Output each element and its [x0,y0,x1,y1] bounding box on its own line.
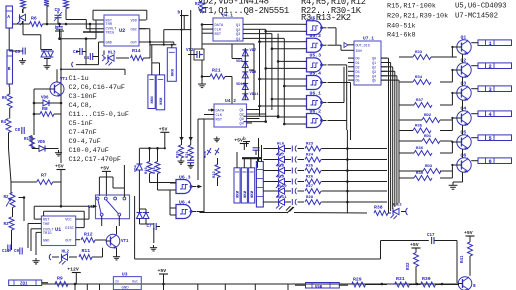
svg-text:8: 8 [473,283,476,289]
svg-text:U5.1: U5.1 [310,16,322,22]
svg-text:R4: R4 [1,121,7,125]
svg-text:C10: C10 [2,250,10,254]
svg-text:+12V: +12V [67,267,79,273]
svg-text:VT1,Q1...Q8-2N5551: VT1,Q1...Q8-2N5551 [198,6,289,16]
svg-text:GND: GND [106,42,112,46]
svg-text:Q2: Q2 [372,66,376,70]
svg-text:U5.2: U5.2 [310,33,322,39]
svg-text:HL10: HL10 [277,185,287,189]
svg-text:C11...C15-0,1uF: C11...C15-0,1uF [69,111,129,119]
svg-text:U6.3: U6.3 [179,174,191,180]
svg-text:R15,R17-100k: R15,R17-100k [387,3,436,11]
svg-text:C7: C7 [147,225,153,229]
svg-text:C5-1nF: C5-1nF [69,120,93,128]
svg-text:R5: R5 [2,97,8,101]
svg-text:5: 5 [489,136,492,142]
svg-text:VDD: VDD [131,20,137,24]
svg-text:HL7: HL7 [277,153,285,157]
svg-text:2: 2 [489,64,492,70]
svg-text:U3: U3 [122,272,128,278]
svg-text:U4.1: U4.1 [222,13,233,19]
svg-text:RST: RST [43,219,50,223]
svg-text:Q2: Q2 [240,114,244,118]
svg-text:C4,C8,: C4,C8, [69,102,93,110]
svg-text:U4.2: U4.2 [225,98,236,104]
svg-text:6: 6 [489,159,492,165]
svg-text:R28: R28 [306,196,314,200]
svg-text:ЖКИ: ЖКИ [171,68,175,76]
svg-text:HL3: HL3 [108,52,116,56]
svg-text:R16: R16 [145,166,149,174]
svg-text:VD4: VD4 [135,164,139,172]
svg-text:R33: R33 [415,51,423,55]
svg-text:R26: R26 [306,175,314,179]
svg-text:C9-4,7uF: C9-4,7uF [69,138,101,146]
svg-text:ЖКИ: ЖКИ [160,97,164,105]
svg-text:B: B [8,66,11,72]
svg-text:ЖКИ: ЖКИ [237,190,241,198]
svg-text:R37: R37 [416,99,424,103]
svg-text:Q3: Q3 [372,71,376,75]
svg-text:RST: RST [216,119,223,123]
svg-text:+5V: +5V [158,268,167,274]
svg-text:R39: R39 [422,276,431,282]
svg-text:Q3: Q3 [240,118,244,122]
svg-text:VD10: VD10 [236,83,246,87]
svg-text:TRIG: TRIG [43,232,52,236]
svg-text:CLK: CLK [216,114,223,118]
svg-text:3: 3 [489,87,492,93]
svg-text:GND: GND [43,239,49,243]
svg-text:U5.4: U5.4 [310,70,322,76]
svg-text:R3,R13-2K2: R3,R13-2K2 [301,13,351,23]
svg-text:INH: INH [356,50,362,54]
svg-text:R40-51k: R40-51k [387,23,416,31]
svg-text:R23: R23 [306,142,314,146]
svg-text:VD5: VD5 [38,141,46,145]
svg-text:R21: R21 [212,68,221,74]
svg-text:+5V: +5V [234,138,243,144]
svg-text:R27: R27 [306,185,314,189]
svg-text:OUT_DIS: OUT_DIS [356,44,370,48]
svg-text:C5: C5 [55,7,61,13]
svg-text:C1-1u: C1-1u [69,75,89,83]
svg-text:U7-MC14502: U7-MC14502 [455,13,498,21]
svg-text:VD8: VD8 [236,60,244,64]
svg-text:Q1: Q1 [461,34,467,40]
svg-text:Q4: Q4 [240,123,244,127]
svg-text:Q5: Q5 [461,129,467,135]
svg-text:R2: R2 [195,3,201,7]
svg-text:VD6: VD6 [41,97,49,101]
svg-text:OUT: OUT [131,42,138,46]
svg-text:R18: R18 [153,166,157,174]
svg-text:C8: C8 [15,129,21,133]
svg-text:Q2: Q2 [461,57,467,63]
svg-text:Q1: Q1 [240,109,244,113]
svg-text:VT1: VT1 [121,240,129,244]
svg-text:ЖКИ: ЖКИ [151,96,155,104]
svg-text:RD2: RD2 [424,114,432,118]
svg-text:R14: R14 [132,48,141,54]
svg-text:R38: R38 [374,205,383,211]
svg-text:VD7: VD7 [250,49,258,53]
svg-text:THR: THR [43,223,50,227]
svg-text:R12: R12 [84,232,93,238]
svg-text:A: A [7,14,10,20]
svg-text:+5V: +5V [159,126,168,132]
svg-text:+5V: +5V [100,165,109,171]
svg-text:RST: RST [215,33,222,37]
svg-text:RD1: RD1 [424,135,432,139]
svg-text:Q3: Q3 [236,33,240,37]
svg-text:R10: R10 [24,138,32,142]
svg-text:R8: R8 [42,106,48,112]
svg-text:b: b [178,10,181,16]
svg-text:Q3: Q3 [461,80,467,86]
svg-text:ZQ1: ZQ1 [20,283,28,287]
svg-text:+5V: +5V [410,242,419,248]
svg-text:Q4: Q4 [461,105,467,111]
svg-text:Q5: Q5 [372,80,376,84]
svg-text:U6.2: U6.2 [310,108,322,114]
svg-text:R7: R7 [41,173,47,179]
svg-text:R35: R35 [415,125,423,129]
svg-text:Out: Out [132,281,138,285]
svg-text:D2: D2 [356,66,360,70]
svg-text:C4: C4 [84,57,90,61]
svg-text:HL11: HL11 [277,196,287,200]
svg-text:C2,C6,C16-47uF: C2,C6,C16-47uF [69,84,125,92]
svg-text:R6: R6 [31,16,37,22]
svg-text:U5.3: U5.3 [310,53,322,59]
svg-text:HL6: HL6 [277,142,285,146]
svg-text:USB: USB [315,285,323,289]
svg-text:VT2: VT2 [186,49,194,53]
svg-text:HL9: HL9 [277,175,285,179]
svg-text:C10-0,47uF: C10-0,47uF [69,147,109,155]
svg-text:R29: R29 [353,277,362,283]
svg-text:R30: R30 [416,172,424,176]
svg-text:R25: R25 [306,164,314,168]
svg-text:D3: D3 [356,71,360,75]
svg-text:U1: U1 [55,227,61,233]
svg-text:R31: R31 [396,276,405,282]
svg-text:R41-6k8: R41-6k8 [387,32,416,40]
svg-text:+5V: +5V [55,164,64,170]
svg-text:GND: GND [122,287,130,290]
svg-text:U2: U2 [119,28,125,34]
svg-text:b: b [55,25,58,31]
svg-text:In: In [115,281,119,285]
svg-text:DATA: DATA [215,24,224,28]
svg-text:Q4: Q4 [236,38,240,42]
svg-text:R3: R3 [4,223,10,227]
svg-text:R22: R22 [213,170,217,178]
svg-text:R34: R34 [415,76,423,80]
svg-text:C3-10nF: C3-10nF [69,93,97,101]
svg-text:HL8: HL8 [277,164,285,168]
svg-text:R21: R21 [186,150,190,158]
svg-text:R32: R32 [407,262,411,270]
svg-text:THR: THR [106,23,113,27]
svg-text:TRIG: TRIG [106,32,115,36]
svg-text:U6.4: U6.4 [179,199,191,205]
svg-text:OSC: OSC [131,28,137,32]
svg-text:VD9: VD9 [250,71,258,75]
svg-text:D5: D5 [356,80,360,84]
svg-text:HL2: HL2 [62,251,70,255]
svg-text:OUT: OUT [65,239,72,243]
svg-text:Q1: Q1 [236,24,240,28]
svg-text:1: 1 [489,41,492,47]
svg-text:U5,U6-CD4093: U5,U6-CD4093 [455,3,506,11]
svg-text:R36: R36 [416,147,424,151]
svg-text:U6.1: U6.1 [310,90,322,96]
svg-text:RD3: RD3 [425,165,433,169]
svg-text:C9: C9 [14,250,20,254]
svg-text:ЖКИ: ЖКИ [251,190,255,198]
svg-text:DISC: DISC [65,227,74,231]
svg-text:Q6: Q6 [461,152,467,158]
svg-text:C3: C3 [15,51,21,55]
svg-text:C12,C17-470pF: C12,C17-470pF [69,156,121,164]
svg-text:DATA: DATA [216,110,225,114]
svg-text:ЖКИ: ЖКИ [244,190,248,198]
svg-text:+5V: +5V [464,230,473,236]
svg-text:R11: R11 [82,248,91,254]
svg-text:VT1: VT1 [60,78,68,82]
svg-text:HL5: HL5 [204,150,208,158]
svg-text:R24: R24 [306,153,314,157]
svg-text:R2: R2 [4,196,10,200]
svg-text:R20: R20 [177,150,181,158]
svg-text:C7-47nF: C7-47nF [69,129,97,137]
svg-text:R9: R9 [57,276,63,282]
svg-text:Q0: Q0 [372,58,376,62]
svg-text:VCC: VCC [65,219,71,223]
svg-text:U7.1: U7.1 [363,36,374,42]
svg-text:D0: D0 [356,58,360,62]
svg-text:R41: R41 [461,255,465,263]
svg-text:R20,R21,R39-10k: R20,R21,R39-10k [387,13,448,21]
